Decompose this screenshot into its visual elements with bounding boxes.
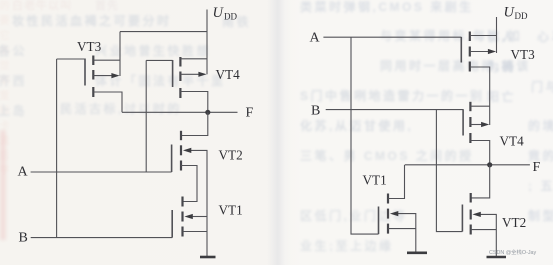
- svg-text:A: A: [18, 165, 29, 180]
- svg-text:VT4: VT4: [216, 67, 241, 82]
- CSDN watermark: [489, 248, 536, 256]
- wire input B line (right): [326, 109, 463, 111]
- svg-text:VT2: VT2: [219, 148, 243, 163]
- wire output F line (right): [405, 164, 530, 166]
- wire input A line (left): [31, 171, 172, 173]
- wire B riser to VT2 gate: [436, 110, 462, 232]
- top-left faint fragments: [12, 0, 72, 13]
- wire output F line (left): [122, 111, 238, 113]
- wire F dot to VT2 drain: [181, 112, 208, 135]
- wire A riser to VT4 gate: [145, 60, 147, 172]
- svg-text:F: F: [533, 160, 541, 175]
- svg-text:F: F: [246, 106, 254, 121]
- wire B riser to VT3 gate: [56, 59, 58, 238]
- wire input B line (left): [31, 237, 173, 239]
- svg-text:A: A: [310, 31, 321, 46]
- faint gray bleed-through text rows: [300, 0, 474, 15]
- svg-text:VT4: VT4: [500, 134, 525, 149]
- transistor VT2 (NMOS, right): [462, 193, 496, 257]
- wire input A line (right): [323, 36, 461, 38]
- svg-text:B: B: [311, 104, 320, 119]
- transistor VT2 (NMOS, left): [172, 131, 207, 257]
- svg-text:DD: DD: [515, 11, 528, 21]
- wire top rail (left): [120, 31, 207, 33]
- transistor VT1 (NMOS, left): [172, 197, 207, 238]
- transistor VT1 (NMOS, right): [379, 165, 416, 252]
- svg-text:DD: DD: [224, 12, 237, 22]
- svg-text:U: U: [213, 5, 225, 21]
- power UDD wire (left): [206, 10, 208, 75]
- seam between the two scans: [267, 0, 291, 265]
- transistor VT3 (PMOS, left): [57, 56, 122, 113]
- wire A riser to VT1 gate: [351, 37, 379, 234]
- svg-text:B: B: [19, 231, 28, 246]
- wire F dot down to VT2 drain: [471, 165, 490, 198]
- wire VT3 supply drop: [119, 32, 121, 76]
- svg-text:VT2: VT2: [502, 215, 526, 230]
- node F junction dot (left): [205, 110, 210, 115]
- transistor VT4 (PMOS, right): [463, 102, 490, 165]
- left pink scan strip (very faint): [0, 130, 6, 240]
- transistor VT3 (PMOS, right): [461, 32, 496, 126]
- svg-text:VT1: VT1: [363, 173, 387, 188]
- ground (right, VT1): [407, 252, 427, 255]
- ground (right, VT2): [487, 256, 507, 259]
- power UDD wire (right): [496, 17, 498, 53]
- svg-text:VT1: VT1: [219, 203, 243, 218]
- svg-text:VT3: VT3: [511, 47, 536, 62]
- svg-text:VT3: VT3: [77, 39, 102, 54]
- transistor VT4 (PMOS, left): [146, 57, 208, 112]
- ground (left): [200, 256, 216, 259]
- node F junction dot (right): [487, 162, 492, 167]
